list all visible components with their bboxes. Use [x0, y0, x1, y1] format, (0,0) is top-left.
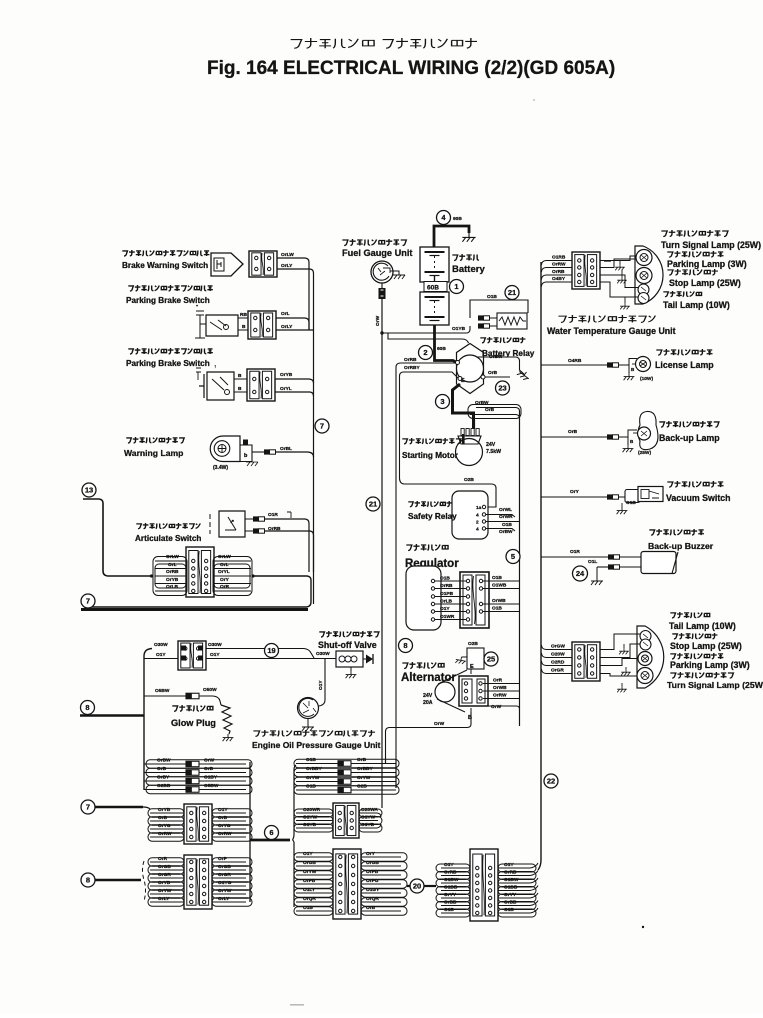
node 8 [399, 639, 413, 653]
svg-text:Shut-off Valve: Shut-off Valve [318, 640, 377, 650]
svg-text:OrBB: OrBB [444, 900, 457, 906]
articulate switch [136, 523, 200, 529]
svg-text:60B: 60B [427, 285, 439, 292]
svg-text:OrBW: OrBW [475, 400, 489, 406]
svg-text:OrGB: OrGB [366, 860, 379, 866]
svg-text:OrWB: OrWB [493, 685, 507, 691]
node 21 [505, 286, 519, 300]
svg-text:OrBBY: OrBBY [306, 766, 323, 772]
svg-text:O1YB: O1YB [361, 822, 375, 828]
svg-text:Vacuum Switch: Vacuum Switch [666, 493, 731, 503]
svg-text:O1Y: O1Y [156, 652, 166, 658]
water temperature gauge unit label [558, 315, 655, 322]
ground [617, 686, 627, 692]
fuse [186, 787, 199, 793]
svg-text:OrRW: OrRW [552, 262, 566, 268]
svg-text:O30W: O30W [154, 642, 168, 648]
svg-text:O2RD: O2RD [551, 660, 565, 666]
node 3 [436, 395, 450, 409]
svg-text:OrR: OrR [220, 584, 230, 590]
svg-text:O1B: O1B [303, 905, 313, 911]
svg-text:25: 25 [487, 655, 495, 664]
svg-text:7.5kW: 7.5kW [486, 449, 501, 455]
svg-text:60B: 60B [437, 346, 446, 352]
svg-text:O30W: O30W [208, 642, 222, 648]
fuse [338, 779, 351, 785]
svg-text:O1Y: O1Y [210, 652, 220, 658]
wires connector to lamps [600, 256, 636, 261]
svg-text:1: 1 [454, 282, 458, 291]
svg-text:Engine Oil Pressure Gauge Unit: Engine Oil Pressure Gauge Unit [252, 740, 381, 750]
svg-text:↗: ↗ [230, 519, 234, 525]
svg-text:O2BB: O2BB [157, 783, 171, 789]
svg-text:O4BY: O4BY [552, 276, 566, 282]
ground [620, 303, 630, 309]
fuse [338, 761, 351, 767]
svg-text:O1Y: O1Y [218, 807, 228, 813]
svg-text:O1R: O1R [570, 549, 580, 555]
node 7 [315, 419, 329, 433]
connector [184, 855, 212, 909]
node 19 [265, 644, 279, 658]
battery bottom box [420, 292, 449, 325]
svg-text:7: 7 [86, 597, 90, 606]
svg-text:OrPB: OrPB [303, 878, 316, 884]
ground [624, 373, 635, 380]
svg-text:Tail Lamp (10W): Tail Lamp (10W) [663, 300, 730, 310]
svg-text:OrYW: OrYW [306, 775, 320, 781]
svg-text:OrGR: OrGR [218, 872, 231, 878]
svg-text:O1BY: O1BY [204, 775, 218, 781]
svg-text:OrWB: OrWB [492, 598, 506, 604]
svg-text:OrYB: OrYB [158, 807, 171, 813]
svg-text:B: B [238, 386, 242, 392]
regulator [406, 544, 448, 551]
svg-text:(25W): (25W) [638, 450, 651, 456]
svg-text:OrR: OrR [158, 856, 168, 862]
top right lamp labels [661, 230, 728, 237]
svg-text:8: 8 [85, 703, 89, 712]
svg-text:Stop Lamp (25W): Stop Lamp (25W) [669, 278, 741, 288]
glow plug symbol [172, 705, 213, 711]
svg-text:OrBL: OrBL [280, 446, 292, 452]
right joins x396 [386, 759, 397, 788]
bottom right labels [670, 612, 709, 618]
svg-text:20: 20 [413, 882, 421, 891]
parking brake switch 2 [128, 348, 213, 354]
svg-text:Brake Warning Switch: Brake Warning Switch [122, 261, 208, 270]
svg-text:Tail Lamp (10W): Tail Lamp (10W) [669, 621, 736, 631]
svg-text:6: 6 [269, 828, 273, 837]
fuse [186, 693, 199, 699]
fuse [186, 761, 199, 767]
fuel gauge unit [342, 239, 406, 246]
svg-text:O1B: O1B [306, 784, 316, 790]
svg-text:O2B: O2B [357, 784, 367, 790]
svg-text:O1YB: O1YB [452, 326, 466, 332]
svg-text:O1Y: O1Y [318, 680, 324, 690]
svg-text:↑: ↑ [214, 365, 216, 370]
stop/tail double bulb [638, 284, 649, 295]
svg-text:(3.4W): (3.4W) [213, 465, 228, 471]
connector [333, 803, 359, 838]
svg-text:O1B: O1B [440, 576, 450, 582]
svg-text:OrL: OrL [168, 562, 177, 568]
butt connector [607, 494, 613, 499]
butt connector [253, 528, 259, 533]
svg-text:OrGB: OrGB [158, 864, 171, 870]
svg-text:OrRW: OrRW [493, 693, 507, 699]
node 25 [484, 652, 498, 666]
svg-text:OrB: OrB [158, 815, 168, 821]
svg-text:O30W: O30W [316, 651, 330, 657]
left drop x294 [293, 765, 297, 840]
svg-text:": " [196, 304, 198, 310]
svg-text:Fig. 164 ELECTRICAL WIRING (2/: Fig. 164 ELECTRICAL WIRING (2/2)(GD 605A… [207, 58, 615, 79]
svg-text:OrPG: OrPG [366, 878, 379, 884]
svg-text:OrLY: OrLY [218, 896, 230, 902]
O1Y wire down to oil gauge [319, 659, 325, 707]
bus x250 [249, 762, 251, 902]
svg-text:O1B: O1B [502, 522, 512, 528]
svg-text:24V: 24V [423, 693, 433, 699]
svg-text:O1YB: O1YB [303, 822, 317, 828]
fuse [338, 770, 351, 776]
svg-text:OrQR: OrQR [303, 896, 316, 902]
fuel gauge trunk wire OrW [381, 299, 383, 808]
node 24 [573, 566, 588, 581]
svg-text:OrY: OrY [366, 851, 376, 857]
title japanese [291, 38, 374, 48]
node 4 [437, 211, 451, 225]
svg-text:E: E [461, 378, 465, 384]
svg-text:OrGW: OrGW [551, 644, 565, 650]
svg-text:OrB: OrB [568, 429, 578, 435]
svg-text:19: 19 [267, 646, 275, 655]
svg-text:Starting Motor: Starting Motor [402, 451, 459, 460]
svg-text:OrBW: OrBW [499, 529, 513, 535]
parking bulb [638, 652, 652, 666]
connector [247, 369, 275, 401]
butt connector [478, 323, 484, 328]
svg-text:OrP: OrP [218, 856, 228, 862]
svg-text:O1BB: O1BB [504, 885, 518, 891]
svg-text:OrYL: OrYL [280, 386, 292, 392]
butt connector [253, 516, 259, 521]
svg-text:OrRW: OrRW [218, 831, 232, 837]
svg-text:OrRB: OrRB [404, 357, 417, 363]
node 21 [366, 497, 380, 511]
connector [470, 849, 498, 921]
node 7 [81, 800, 95, 814]
connector [248, 311, 276, 339]
svg-text:OrB: OrB [357, 757, 367, 763]
vacuum switch [541, 496, 607, 498]
svg-text:OrLY: OrLY [281, 263, 293, 269]
parking brake switch 1 [128, 285, 213, 291]
connector [184, 804, 212, 844]
svg-text:OrBW: OrBW [157, 758, 171, 764]
left fuse rows [144, 763, 186, 765]
ground [462, 233, 475, 242]
butt connector [264, 449, 270, 454]
shutoff valve [319, 631, 379, 637]
svg-text:7: 7 [320, 422, 324, 431]
svg-text:OrYL: OrYL [218, 569, 230, 575]
svg-text:23: 23 [498, 384, 506, 393]
svg-text:OrPB: OrPB [366, 869, 379, 875]
back-up buzzer [649, 529, 704, 535]
ground [346, 671, 357, 678]
oil pressure gauge [298, 698, 319, 719]
scan speckles [642, 926, 644, 928]
svg-text:Stop Lamp (25W): Stop Lamp (25W) [670, 641, 742, 651]
svg-text:O1WB: O1WB [492, 583, 507, 589]
svg-text:24: 24 [576, 569, 585, 578]
svg-text:OrB: OrB [218, 815, 228, 821]
svg-text:OrLY: OrLY [281, 324, 293, 330]
svg-text:O1WR: O1WR [440, 614, 455, 620]
svg-text:O1GY: O1GY [366, 887, 380, 893]
svg-text:RB: RB [240, 312, 247, 318]
svg-text:(10W): (10W) [640, 376, 653, 382]
node 23 [496, 381, 510, 395]
svg-text:21: 21 [508, 288, 516, 297]
svg-text:O1L: O1L [588, 559, 597, 565]
svg-text:OrW: OrW [434, 721, 445, 727]
60B label + node 1 [424, 282, 447, 292]
connector [249, 251, 277, 277]
svg-text:Parking Lamp (3W): Parking Lamp (3W) [667, 259, 747, 269]
x520 trunk down [519, 411, 521, 726]
svg-text:O1B: O1B [487, 294, 497, 300]
svg-text:OrB: OrB [366, 905, 376, 911]
svg-text:O2B: O2B [464, 477, 474, 483]
svg-text:O5BW: O5BW [155, 688, 170, 694]
connector [186, 547, 214, 597]
svg-text:O1BW: O1BW [444, 877, 459, 883]
svg-text:O1B: O1B [306, 757, 316, 763]
wires connector to lamps [600, 634, 640, 650]
node 22 [544, 774, 558, 788]
right trunk x541 [538, 262, 541, 870]
svg-text:OrBB: OrBB [504, 900, 517, 906]
svg-text:3: 3 [440, 397, 444, 406]
svg-text:OrBBY: OrBBY [357, 766, 374, 772]
svg-text:OrY: OrY [570, 489, 580, 495]
svg-text:O1Y: O1Y [303, 851, 313, 857]
svg-text:OrW: OrW [375, 315, 381, 326]
svg-text:O1YW: O1YW [361, 815, 376, 821]
fuse [186, 778, 199, 784]
svg-text:7: 7 [86, 803, 90, 812]
node 7 [81, 594, 95, 608]
ground [617, 507, 628, 514]
wire to shutoff valve [206, 649, 314, 659]
svg-text:Glow Plug: Glow Plug [171, 718, 216, 728]
svg-text:OrW: OrW [491, 704, 502, 710]
svg-text:Back-up Lamp: Back-up Lamp [659, 433, 720, 443]
svg-text:O1PB: O1PB [440, 591, 454, 597]
svg-text:O50W: O50W [203, 687, 217, 693]
svg-text:OrYB: OrYB [158, 880, 171, 886]
butt connector [607, 362, 613, 367]
svg-text:OrYW: OrYW [158, 888, 172, 894]
svg-text:OrLB: OrLB [166, 584, 179, 590]
svg-text:O2B: O2B [468, 641, 478, 647]
ground [619, 648, 629, 654]
svg-text:5: 5 [511, 552, 515, 561]
tail/stop double bulb [640, 631, 651, 642]
fuse [186, 770, 199, 776]
left trunk x144 [144, 649, 152, 791]
node 13 [82, 483, 96, 497]
license lamp [541, 364, 607, 366]
svg-text:Back-up Buzzer: Back-up Buzzer [648, 541, 714, 551]
svg-text:OrRBY: OrRBY [404, 365, 421, 371]
svg-text:OrYG: OrYG [218, 823, 231, 829]
svg-text:OrLB: OrLB [440, 599, 453, 605]
svg-text:O1YW: O1YW [303, 815, 318, 821]
svg-text:Water Temperature Gauge Unit: Water Temperature Gauge Unit [547, 326, 676, 336]
svg-text:Parking Brake Switch: Parking Brake Switch [126, 296, 210, 305]
fuse [338, 787, 351, 793]
safety relay [452, 491, 488, 539]
svg-text:OrRB: OrRB [440, 583, 453, 589]
svg-text:13: 13 [85, 486, 93, 495]
svg-text:OrW: OrW [204, 758, 215, 764]
ground [223, 734, 234, 741]
svg-text:O20WA: O20WA [361, 807, 378, 813]
svg-text:21: 21 [369, 500, 377, 509]
svg-text:OrGR: OrGR [551, 668, 564, 674]
svg-text:OrGB: OrGB [303, 860, 316, 866]
svg-text:OrYY: OrYY [504, 892, 517, 898]
svg-text:O1B: O1B [492, 575, 502, 581]
svg-text:O1Y: O1Y [440, 606, 450, 612]
svg-text:O1B: O1B [492, 606, 502, 612]
ground [302, 723, 314, 731]
svg-text:1a: 1a [476, 505, 482, 511]
svg-text:Safety Relay: Safety Relay [408, 512, 457, 521]
battery relay [457, 344, 484, 394]
svg-text:OrRB: OrRB [552, 269, 565, 275]
svg-text:OrGB: OrGB [218, 864, 231, 870]
svg-text:B: B [238, 373, 242, 379]
svg-text:8: 8 [86, 876, 90, 885]
connector [178, 641, 206, 670]
svg-text:Turn Signal Lamp (25W): Turn Signal Lamp (25W) [667, 680, 763, 690]
warning lamp [126, 437, 184, 443]
svg-text:O1YG: O1YG [218, 880, 232, 886]
ground [615, 264, 625, 270]
connector [572, 642, 600, 681]
svg-text:OrYW: OrYW [303, 869, 317, 875]
svg-text:OrYW: OrYW [357, 775, 371, 781]
svg-text:Parking Brake Switch: Parking Brake Switch [126, 359, 210, 368]
node 5 [506, 550, 520, 564]
brake warning switch [122, 250, 209, 256]
svg-text:4: 4 [476, 527, 479, 533]
butt connector [608, 554, 614, 559]
ground [623, 445, 634, 452]
svg-text:OrY: OrY [220, 577, 230, 583]
svg-text:OrRB: OrRB [504, 870, 517, 876]
svg-text:OrYW: OrYW [218, 888, 232, 894]
node 6 [265, 826, 279, 840]
ground [517, 368, 531, 382]
starting motor [456, 439, 483, 466]
middle fuse rows [296, 763, 338, 765]
svg-text:Parking Lamp (3W): Parking Lamp (3W) [670, 660, 750, 670]
svg-text:OrLW: OrLW [281, 252, 294, 258]
turn signal bulb [637, 668, 653, 684]
svg-text:8: 8 [403, 641, 407, 650]
ground [621, 669, 631, 675]
svg-text:O5BW: O5BW [204, 783, 219, 789]
svg-text:OrB: OrB [204, 766, 214, 772]
svg-text:OrLY: OrLY [158, 896, 170, 902]
svg-text:2: 2 [476, 520, 479, 526]
svg-text:22: 22 [547, 777, 555, 786]
back-up lamp [541, 436, 607, 438]
svg-text:OrRW: OrRW [158, 831, 172, 837]
svg-text:Warning Lamp: Warning Lamp [124, 448, 183, 458]
svg-text:24V: 24V [486, 442, 496, 448]
svg-text:OrWL: OrWL [499, 507, 512, 513]
svg-text:OrB: OrB [488, 370, 498, 376]
svg-text:O1Y: O1Y [504, 862, 514, 868]
svg-text:License Lamp: License Lamp [655, 360, 714, 370]
svg-text:4: 4 [476, 513, 479, 519]
ground [455, 656, 466, 664]
svg-text:OrB: OrB [157, 766, 167, 772]
svg-text:OrRB: OrRB [444, 870, 457, 876]
svg-text:O1B: O1B [444, 907, 454, 913]
svg-text:OrR: OrR [493, 678, 503, 684]
node 20 [410, 879, 424, 893]
svg-text:Turn Signal Lamp (25W): Turn Signal Lamp (25W) [661, 240, 761, 250]
parking lamp bulb [636, 268, 652, 284]
svg-text:O1B: O1B [504, 907, 514, 913]
svg-text:2: 2 [423, 348, 427, 357]
ground [617, 277, 627, 283]
connector [333, 849, 361, 919]
svg-text:O20WR: O20WR [303, 807, 321, 813]
turn signal lamp bulb [636, 250, 652, 266]
svg-text:OrGR: OrGR [158, 872, 171, 878]
svg-text:OrYY: OrYY [444, 892, 457, 898]
svg-text:OrYG: OrYG [158, 823, 171, 829]
svg-text:O1BB: O1BB [444, 885, 458, 891]
svg-text:OrRB: OrRB [166, 569, 179, 575]
node 1 [450, 280, 464, 294]
node 20 [407, 885, 410, 887]
node 6 thick bus [250, 839, 290, 842]
top right lamp housing [635, 246, 663, 304]
battery minus cable to relay [435, 325, 457, 362]
svg-text:O1BW: O1BW [504, 877, 519, 883]
svg-text:60B: 60B [453, 216, 462, 222]
ground [591, 577, 603, 585]
battery top box [420, 247, 449, 282]
butt connector [607, 434, 613, 439]
svg-text:20A: 20A [423, 700, 433, 706]
svg-text:O1R: O1R [268, 512, 278, 518]
butt connector [478, 315, 484, 320]
butt connector [608, 564, 614, 569]
connector [572, 252, 600, 289]
